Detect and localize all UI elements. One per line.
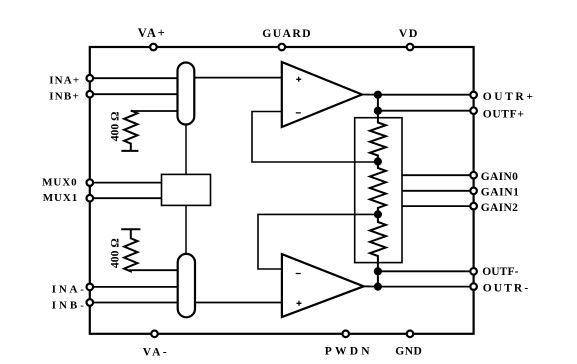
svg-text:VA-: VA- <box>143 347 169 359</box>
svg-text:MUX1: MUX1 <box>43 192 78 204</box>
svg-text:GAIN0: GAIN0 <box>481 171 519 183</box>
svg-text:GND: GND <box>395 346 422 358</box>
svg-text:GAIN2: GAIN2 <box>481 202 519 214</box>
svg-text:VA+: VA+ <box>138 26 167 40</box>
svg-text:GUARD: GUARD <box>262 27 312 40</box>
svg-text:PWDN: PWDN <box>325 346 373 358</box>
svg-text:INB-: INB- <box>52 299 87 311</box>
svg-text:INA+: INA+ <box>49 75 80 87</box>
svg-text:OUTR+: OUTR+ <box>483 91 536 103</box>
svg-text:MUX0: MUX0 <box>42 177 78 189</box>
svg-text:INA-: INA- <box>52 283 87 295</box>
svg-text:OUTR-: OUTR- <box>483 283 531 295</box>
svg-text:INB+: INB+ <box>49 91 80 103</box>
svg-text:400 Ω: 400 Ω <box>109 238 122 268</box>
svg-text:VD: VD <box>399 26 419 40</box>
svg-text:GAIN1: GAIN1 <box>481 187 520 199</box>
svg-text:400 Ω: 400 Ω <box>108 111 121 141</box>
svg-text:OUTF+: OUTF+ <box>483 109 525 121</box>
svg-text:OUTF-: OUTF- <box>482 266 518 278</box>
